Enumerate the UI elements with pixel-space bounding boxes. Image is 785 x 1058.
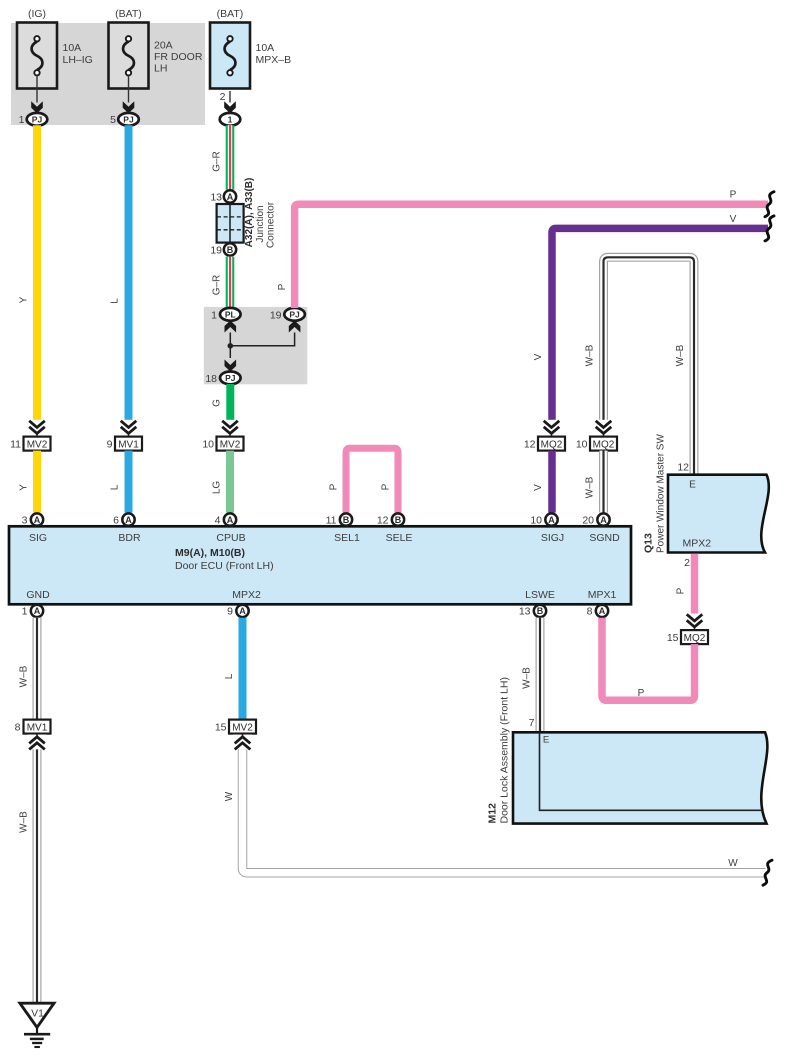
- pin 8 label: [15, 721, 21, 733]
- break symbol V wire: [765, 216, 774, 241]
- svg-text:8: 8: [587, 606, 593, 618]
- svg-text:MV1: MV1: [27, 722, 48, 733]
- svg-text:BDR: BDR: [118, 532, 141, 544]
- svg-text:M9(A), M10(B): M9(A), M10(B): [175, 547, 245, 559]
- pin 15 label MQ2: [667, 632, 679, 644]
- svg-text:A: A: [125, 515, 132, 525]
- svg-text:PL: PL: [225, 310, 236, 320]
- connector PJ (pin 19): [284, 308, 305, 321]
- fuse F3 10A MPX-B: [210, 23, 250, 89]
- svg-text:SELE: SELE: [386, 532, 413, 544]
- svg-text:PJ: PJ: [289, 310, 300, 320]
- Q13 internal MPX2 label: [683, 538, 712, 550]
- svg-text:13: 13: [210, 191, 222, 203]
- svg-text:5: 5: [110, 114, 116, 126]
- fuse F2 value label: [154, 40, 203, 75]
- svg-text:SIGJ: SIGJ: [541, 532, 564, 544]
- arrow into PJ 18: [225, 360, 237, 372]
- wire label L: [110, 298, 121, 304]
- internal wire with junction dot: [228, 333, 295, 359]
- svg-text:20: 20: [582, 515, 594, 527]
- M12 name label: [487, 677, 511, 823]
- svg-text:19: 19: [270, 309, 282, 321]
- wire label W vertical: [224, 791, 235, 801]
- wire label L mid: [110, 484, 121, 490]
- wire label P horizontal: [730, 190, 737, 201]
- wire P pink from PJ19 to right break: [295, 204, 768, 308]
- wire W-B MV1 to ground: [33, 749, 42, 1003]
- svg-text:10A: 10A: [63, 42, 82, 54]
- wire label G-R lower: [212, 275, 223, 296]
- wire L blue ECU pin 9 to MV2: [239, 618, 247, 720]
- wire label W-B right: [522, 667, 533, 689]
- svg-text:18: 18: [205, 373, 217, 385]
- svg-text:MPX1: MPX1: [588, 589, 617, 601]
- svg-text:MQ2: MQ2: [684, 633, 706, 644]
- pin 19 label: [210, 244, 222, 256]
- pin 7 label: [529, 717, 535, 729]
- svg-text:15: 15: [667, 632, 679, 644]
- Door ECU box M9(A) M10(B): [9, 526, 631, 604]
- svg-text:A: A: [599, 606, 606, 616]
- svg-text:MV2: MV2: [232, 722, 253, 733]
- svg-text:11: 11: [326, 515, 337, 527]
- svg-text:1: 1: [22, 606, 28, 618]
- svg-text:PJ: PJ: [225, 373, 236, 383]
- node B ECU bottom pin 13: [534, 605, 546, 617]
- svg-text:20A: 20A: [154, 40, 173, 52]
- pin 12 label Q13: [677, 461, 689, 473]
- svg-text:V: V: [730, 214, 737, 225]
- pin 10 label: [202, 438, 214, 450]
- svg-text:B: B: [227, 245, 234, 255]
- arrow into PJ 19: [289, 321, 301, 333]
- wire label W-B lower left: [19, 811, 30, 833]
- svg-text:P: P: [638, 688, 645, 699]
- wire fuse F2 to connector PJ pin 5: [123, 76, 135, 114]
- wire label W-B right leg: [675, 344, 686, 366]
- wire fuse F3 to connector 1: [224, 91, 236, 113]
- fuse F1 caption (IG): [28, 8, 46, 20]
- connector PL (pin 1): [220, 308, 241, 321]
- svg-text:12: 12: [677, 461, 689, 473]
- svg-text:SGND: SGND: [589, 532, 620, 544]
- svg-text:B: B: [537, 606, 544, 616]
- wire W-B loop ECU pin 20 to Q13 pin 12: [604, 257, 695, 474]
- node A ECU pin 3: [31, 513, 43, 525]
- svg-text:(BAT): (BAT): [115, 8, 142, 20]
- wire P pink MQ2 to ECU pin 8: [602, 618, 695, 701]
- svg-text:A: A: [227, 192, 234, 202]
- svg-text:Power Window Master SW: Power Window Master SW: [656, 434, 667, 553]
- pin 13 label: [210, 191, 222, 203]
- node A ECU bottom pin 1: [31, 605, 43, 617]
- node A ECU pin 4: [224, 513, 236, 525]
- wire G-R from junction connector B to PL: [226, 257, 235, 308]
- node B junction connector bottom: [224, 243, 236, 255]
- pin 9 label: [107, 438, 113, 450]
- svg-text:P: P: [381, 483, 392, 490]
- break symbol W wire: [763, 860, 772, 885]
- svg-text:11: 11: [10, 438, 21, 450]
- M12 internal wire to E: [540, 732, 763, 810]
- wire label P right: [676, 587, 687, 594]
- connector MV1 pin 9 arrow: [119, 420, 138, 437]
- pin 20 label: [582, 515, 594, 527]
- ECU terminal label CPUB: [216, 532, 245, 544]
- ECU terminal label GND: [26, 589, 50, 601]
- M12 Door Lock Assembly box: [513, 732, 767, 823]
- wire Y yellow to ECU pin 3: [33, 451, 41, 513]
- svg-text:W: W: [728, 858, 738, 869]
- svg-text:(IG): (IG): [28, 8, 46, 20]
- svg-text:9: 9: [107, 438, 113, 450]
- svg-text:2: 2: [220, 91, 226, 103]
- wire label V horizontal: [730, 214, 737, 225]
- svg-text:7: 7: [529, 717, 535, 729]
- svg-text:Connector: Connector: [266, 201, 277, 248]
- svg-text:Q13: Q13: [643, 533, 655, 553]
- connector MV2 pin 10 arrow: [221, 420, 240, 437]
- fuse F3 caption (BAT): [217, 8, 244, 20]
- pin 19 label PJ: [270, 309, 282, 321]
- pin 12 label: [524, 438, 536, 450]
- svg-text:W–B: W–B: [585, 476, 596, 498]
- connector MQ2 pin 10 arrow: [594, 420, 613, 437]
- pin 9 label: [227, 606, 233, 618]
- ECU terminal label SIGJ: [541, 532, 564, 544]
- svg-text:1: 1: [19, 114, 25, 126]
- wire label Y mid: [19, 484, 30, 491]
- pin 15 label: [215, 721, 227, 733]
- svg-text:E: E: [543, 735, 549, 746]
- pin 4 label: [215, 515, 221, 527]
- pin 2 label Q13: [684, 557, 690, 569]
- wire P pink Q13 pin 2 to MQ2: [691, 554, 699, 615]
- ECU terminal label SEL1: [334, 532, 360, 544]
- junction connector name label: [244, 178, 277, 248]
- wire label W horizontal: [728, 858, 738, 869]
- break symbol P wire: [765, 192, 774, 217]
- svg-text:9: 9: [227, 606, 233, 618]
- Q13 Power Window Master SW box: [668, 475, 769, 553]
- svg-text:10: 10: [202, 438, 214, 450]
- svg-text:A: A: [600, 515, 607, 525]
- connector MV2 pin 11 arrow: [28, 420, 47, 437]
- ECU terminal label SELE: [386, 532, 413, 544]
- node A ECU bottom pin 9: [236, 605, 248, 617]
- pin 12 label: [377, 515, 389, 527]
- svg-text:A32(A), A33(B): A32(A), A33(B): [244, 178, 255, 248]
- svg-text:4: 4: [215, 515, 221, 527]
- svg-text:GND: GND: [26, 589, 50, 601]
- svg-text:L: L: [110, 484, 121, 490]
- svg-text:W–B: W–B: [19, 811, 30, 833]
- svg-text:PJ: PJ: [32, 115, 43, 125]
- svg-text:10A: 10A: [256, 42, 275, 54]
- connector 1: [220, 113, 241, 126]
- wire G green from PJ18 to MV2: [226, 384, 234, 421]
- svg-text:Y: Y: [19, 484, 30, 491]
- svg-text:L: L: [110, 298, 121, 304]
- pin 1 label: [19, 114, 25, 126]
- fuse F3 value label: [256, 42, 292, 66]
- svg-text:12: 12: [377, 515, 389, 527]
- svg-text:P: P: [329, 483, 340, 490]
- svg-text:Y: Y: [19, 296, 30, 303]
- svg-text:MPX2: MPX2: [232, 589, 261, 601]
- wire label V vertical: [533, 353, 544, 360]
- fuse F2 caption (BAT): [115, 8, 142, 20]
- pin 18 label PJ: [205, 373, 217, 385]
- wire label P SEL1: [329, 483, 340, 490]
- svg-text:G–R: G–R: [212, 275, 223, 296]
- ECU terminal label SGND: [589, 532, 620, 544]
- svg-text:A: A: [239, 606, 246, 616]
- svg-text:MQ2: MQ2: [541, 439, 563, 450]
- pin 1 label PL: [211, 309, 217, 321]
- svg-text:1: 1: [228, 115, 233, 125]
- svg-text:15: 15: [215, 721, 227, 733]
- wire Y yellow from PJ1 to MV2: [33, 125, 41, 421]
- svg-text:3: 3: [22, 515, 28, 527]
- svg-text:MPX2: MPX2: [683, 538, 712, 550]
- wire G-R from connector 1 to junction connector A: [226, 125, 235, 189]
- svg-text:W–B: W–B: [19, 665, 30, 687]
- wire label V mid: [533, 484, 544, 491]
- connector PJ (pin 5): [118, 113, 139, 126]
- svg-text:L: L: [224, 673, 235, 679]
- svg-text:MPX–B: MPX–B: [256, 54, 292, 66]
- svg-text:2: 2: [684, 557, 690, 569]
- wire label Y: [19, 296, 30, 303]
- pin 3 label: [22, 515, 28, 527]
- node B ECU pin 12: [392, 513, 404, 525]
- pin 8 label: [587, 606, 593, 618]
- wire L blue from PJ5 to MV1: [125, 125, 133, 421]
- relay block gray box: [204, 307, 307, 384]
- M12 internal E label: [543, 735, 549, 746]
- connector MV2: [217, 437, 244, 451]
- svg-text:M12: M12: [487, 803, 499, 824]
- connector MV2 (pin 15): [229, 720, 256, 734]
- Q13 name label: [643, 434, 667, 553]
- svg-text:(BAT): (BAT): [217, 8, 244, 20]
- svg-text:A: A: [34, 606, 41, 616]
- svg-text:B: B: [395, 515, 402, 525]
- svg-text:MV1: MV1: [118, 439, 139, 450]
- wire label L lower: [224, 673, 235, 679]
- svg-text:13: 13: [519, 606, 531, 618]
- wire label LG: [212, 481, 223, 495]
- svg-text:1: 1: [211, 309, 217, 321]
- svg-text:LH: LH: [154, 63, 167, 75]
- pin 11 label: [10, 438, 21, 450]
- svg-text:SIG: SIG: [29, 532, 47, 544]
- pin 1 label: [22, 606, 28, 618]
- svg-text:19: 19: [210, 244, 222, 256]
- wire W-B to ECU pin 20: [599, 451, 608, 513]
- pin 11 label: [326, 515, 337, 527]
- svg-text:P: P: [676, 587, 687, 594]
- node B ECU pin 11: [340, 513, 352, 525]
- svg-text:V1: V1: [31, 1008, 44, 1020]
- pin 10 label: [530, 515, 542, 527]
- wire W white MV2 to right break: [243, 749, 766, 872]
- wire label W-B upper left: [19, 665, 30, 687]
- svg-text:12: 12: [524, 438, 536, 450]
- wire W-B ECU pin 13 to M12 pin 7: [536, 618, 545, 733]
- junction block J/B gray box: [11, 23, 205, 125]
- svg-text:10: 10: [530, 515, 542, 527]
- fuse F2 20A FR DOOR LH: [109, 23, 149, 89]
- svg-text:SEL1: SEL1: [334, 532, 360, 544]
- svg-text:CPUB: CPUB: [216, 532, 245, 544]
- svg-text:G: G: [212, 399, 223, 407]
- svg-text:Junction: Junction: [255, 205, 266, 242]
- svg-text:B: B: [343, 515, 350, 525]
- svg-text:W–B: W–B: [585, 344, 596, 366]
- connector MQ2 (pin 15): [681, 630, 708, 644]
- wire fuse F1 to connector PJ pin 1: [31, 76, 43, 114]
- svg-text:G–R: G–R: [212, 151, 223, 172]
- wire label P SELE: [381, 483, 392, 490]
- connector MV1: [115, 437, 142, 451]
- svg-text:10: 10: [576, 438, 588, 450]
- svg-text:Door ECU (Front LH): Door ECU (Front LH): [175, 560, 274, 572]
- ECU terminal label BDR: [118, 532, 141, 544]
- svg-text:W–B: W–B: [675, 344, 686, 366]
- Q13 internal E label: [689, 480, 696, 491]
- svg-text:P: P: [730, 190, 737, 201]
- svg-text:V: V: [533, 484, 544, 491]
- svg-text:Door Lock Assembly (Front LH): Door Lock Assembly (Front LH): [499, 677, 511, 823]
- pin 5 label: [110, 114, 116, 126]
- svg-text:A: A: [227, 515, 234, 525]
- junction connector A32(A), A33(B): [217, 204, 244, 243]
- arrow into PL: [225, 321, 237, 333]
- pin 13 label: [519, 606, 531, 618]
- svg-text:A: A: [34, 515, 41, 525]
- node A ECU bottom pin 8: [596, 605, 608, 617]
- connector MV2 arrow: [233, 734, 252, 750]
- wire P pink loop SEL1 to SELE: [346, 448, 398, 512]
- connector MV1 arrow: [28, 734, 47, 750]
- svg-text:LSWE: LSWE: [525, 589, 555, 601]
- svg-text:FR DOOR: FR DOOR: [154, 51, 203, 63]
- svg-text:PJ: PJ: [123, 115, 134, 125]
- node A ECU pin 20: [597, 513, 609, 525]
- wire LG light green to ECU pin 4: [226, 451, 234, 513]
- connector MQ2: [538, 437, 565, 451]
- node A ECU pin 6: [122, 513, 134, 525]
- svg-text:W–B: W–B: [522, 667, 533, 689]
- wire label P bottom: [638, 688, 645, 699]
- connector MV2: [24, 437, 51, 451]
- svg-text:MV2: MV2: [220, 439, 241, 450]
- connector MQ2: [590, 437, 617, 451]
- svg-text:W: W: [224, 791, 235, 801]
- svg-text:P: P: [277, 283, 288, 290]
- wire label W-B mid: [585, 476, 596, 498]
- wire label G-R: [212, 151, 223, 172]
- wire label P vertical: [277, 283, 288, 290]
- svg-text:E: E: [689, 480, 696, 491]
- svg-text:MQ2: MQ2: [593, 439, 615, 450]
- node A junction connector top: [224, 190, 236, 202]
- pin 10 label: [576, 438, 588, 450]
- node A ECU pin 10: [545, 513, 557, 525]
- wire V purple to ECU pin 10: [548, 451, 556, 513]
- ground V1: [20, 1003, 54, 1047]
- svg-text:8: 8: [15, 721, 21, 733]
- ECU terminal label SIG: [29, 532, 47, 544]
- ECU terminal label MPX1: [588, 589, 617, 601]
- connector MQ2 pin 15 arrow: [685, 614, 704, 631]
- wire V purple from top elbow to MQ2: [552, 228, 768, 420]
- svg-text:LH–IG: LH–IG: [63, 54, 93, 66]
- svg-text:6: 6: [113, 515, 119, 527]
- connector MV1 (pin 8): [24, 720, 51, 734]
- fuse F1 value label: [63, 42, 93, 66]
- svg-text:MV2: MV2: [27, 439, 48, 450]
- connector MQ2 pin 12 arrow: [542, 420, 561, 437]
- wire W-B ECU pin 1 to MV1: [33, 618, 42, 720]
- wire label W-B left leg: [585, 344, 596, 366]
- connector PJ (pin 18): [220, 372, 241, 385]
- pin 6 label: [113, 515, 119, 527]
- ECU terminal label LSWE: [525, 589, 555, 601]
- svg-text:LG: LG: [212, 481, 223, 495]
- ECU terminal label MPX2: [232, 589, 261, 601]
- pin 2 label: [220, 91, 226, 103]
- wire label G: [212, 399, 223, 407]
- svg-text:V: V: [533, 353, 544, 360]
- fuse F1 10A LH-IG: [17, 23, 57, 89]
- svg-text:A: A: [548, 515, 555, 525]
- connector PJ (pin 1): [27, 113, 48, 126]
- wire L blue to ECU pin 6: [125, 451, 133, 513]
